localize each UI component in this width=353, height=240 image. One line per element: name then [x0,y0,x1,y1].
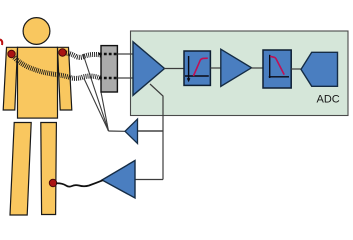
person right leg [41,123,57,215]
wire HPF to amp U2 [210,67,221,69]
connector dashed wire bottom [99,77,119,79]
leg drive wire (squiggle to RL electrode) [56,180,103,186]
wire U1 to HPF [164,68,184,70]
connector dashed wire top [99,53,119,55]
shield fan wire B (tap on LA lead) [84,79,109,132]
feedback wire from U1 to drive amps [135,84,163,180]
F1 red high-pass response [193,58,207,76]
person left arm [3,47,17,110]
electrode LA (left shoulder) [8,50,15,57]
instrumentation amp U1 [133,42,165,96]
person left leg [10,123,31,216]
connector block [101,46,117,92]
person head [23,18,50,45]
F2 red low-pass response [270,56,284,74]
wire connector to inst amp (bottom input) [118,77,134,79]
electrode RA (right shoulder) [59,49,66,56]
ADC block [301,52,338,86]
high-pass filter block F1 [184,51,210,85]
low-pass filter block F2 [263,50,291,88]
shield drive output wire [109,130,126,132]
shield fan wire C (connector corner) [101,92,109,131]
person torso [18,47,58,118]
red tick at left edge [0,40,2,46]
shield fan wire A (tap on RA lead) [83,54,109,131]
svg-text:ADC: ADC [317,94,340,106]
wire LPF to ADC [291,68,302,70]
wire U2 to LPF [251,67,264,69]
person right arm [58,47,72,110]
wire connector to inst amp (top input) [118,53,134,55]
F1 horizontal axis [185,75,209,77]
wire to shield-drive amp U3 input [138,130,164,132]
green signal-chain box [131,31,349,116]
F2 horizontal axis [269,76,289,78]
lead wire RA (coiled, shoulder to connector) [66,53,101,57]
electrode RL (right leg) [49,179,56,186]
lead wire LA (coiled, across chest to connector) [13,56,101,79]
right-leg drive amp U4 [102,161,135,199]
F1 vertical axis [188,56,190,81]
shield-drive amp U3 [125,119,138,144]
F2 vertical axis [269,55,271,78]
amplifier U2 [221,49,252,86]
